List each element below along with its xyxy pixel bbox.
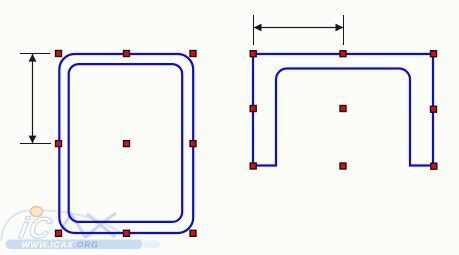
handle right mid-right [430, 106, 437, 113]
right dimension line [254, 27, 343, 29]
handle right top-right [430, 50, 437, 57]
handle left top-mid [123, 50, 130, 57]
handle left mid-left [55, 140, 62, 147]
svg-text:WWW.ICAX.ORG: WWW.ICAX.ORG [22, 239, 99, 249]
right dimension arrowhead left [254, 24, 262, 32]
right dimension arrowhead right [336, 24, 344, 32]
handle left mid-right [189, 140, 196, 147]
handle right bottom-left [250, 162, 257, 169]
watermark band www.icax.org [6, 240, 143, 250]
watermark letter X swoosh [86, 213, 116, 237]
handle left top-left [55, 50, 62, 57]
right dimension right tick [343, 15, 345, 45]
handle left bottom-mid [123, 230, 130, 237]
watermark i dot (orange) [31, 207, 43, 217]
handle left top-right [189, 50, 196, 57]
handle right center [339, 105, 346, 112]
watermark letters iCAX [17, 212, 55, 245]
left shape inner rounded rectangle [69, 64, 183, 222]
left dimension bottom tick [20, 143, 51, 145]
watermark dome arc [1, 210, 127, 241]
handle right bottom-mid [339, 162, 346, 169]
left dimension line [32, 54, 34, 143]
handle left bottom-left [55, 230, 62, 237]
watermark letter A (caret) [56, 214, 86, 238]
handle right mid-left [250, 105, 257, 112]
handle right bottom-right [430, 163, 437, 170]
handle right top-mid [339, 50, 346, 57]
left dimension top tick [20, 53, 50, 55]
right shape channel outline [253, 54, 433, 166]
handle right top-left [250, 50, 257, 57]
left shape outer rounded rectangle [59, 54, 193, 233]
handle left center [123, 140, 130, 147]
handle left bottom-right [189, 230, 196, 237]
left dimension arrowhead up [29, 54, 37, 62]
left dimension arrowhead down [29, 136, 37, 144]
right dimension left tick [253, 15, 255, 45]
